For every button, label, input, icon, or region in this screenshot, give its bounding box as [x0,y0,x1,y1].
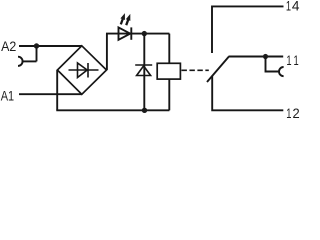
svg-text:1: 1 [294,52,299,68]
LED arrow 1 [120,13,125,24]
svg-text:1: 1 [286,52,291,68]
LED arrow 2 [126,14,131,25]
wire 11 junction down to socket [266,57,279,72]
mechanical link (dashed) [182,69,209,71]
wire 11 common [229,56,284,58]
bridge rectifier B1 (diamond) [57,46,106,95]
wire bridge left vertex down to rail [56,70,58,110]
socket contact 11 (arc open right) [279,67,284,76]
wire coil branch down [168,34,170,64]
svg-text:4: 4 [292,0,300,14]
LED diode [119,27,131,39]
wire contact 12 bottom [212,76,283,110]
wire junction down [36,46,38,61]
LED cathode bar [130,27,132,39]
wire contact 14 top [212,6,284,53]
wire coil bottom to rail [168,79,170,110]
contact blade 11-12 [207,57,229,82]
relay coil K1 [157,63,180,79]
svg-text:A1: A1 [1,87,15,103]
negative rail wire [56,109,169,111]
node rail junction [142,108,147,113]
freewheeling diode V1 (cathode up) [135,65,152,76]
wire A1 to bridge bottom [19,93,82,95]
wire to socket A2 [22,60,37,62]
svg-text:1: 1 [286,105,291,118]
wire A2 to bridge top [19,45,82,47]
diode inside bridge [69,63,99,78]
svg-text:1: 1 [286,0,291,14]
socket contact A2 (arc open left) [18,57,23,66]
svg-text:A2: A2 [1,38,16,54]
wire LED branch (bridge + output to coil corner) [106,33,169,35]
wire bridge right vertex up [106,34,108,70]
node A2 junction [34,43,39,48]
node 11 junction [263,54,268,59]
node LED line junction [142,31,147,36]
wire junction down to freewheel diode [143,34,145,111]
svg-text:2: 2 [293,105,300,118]
